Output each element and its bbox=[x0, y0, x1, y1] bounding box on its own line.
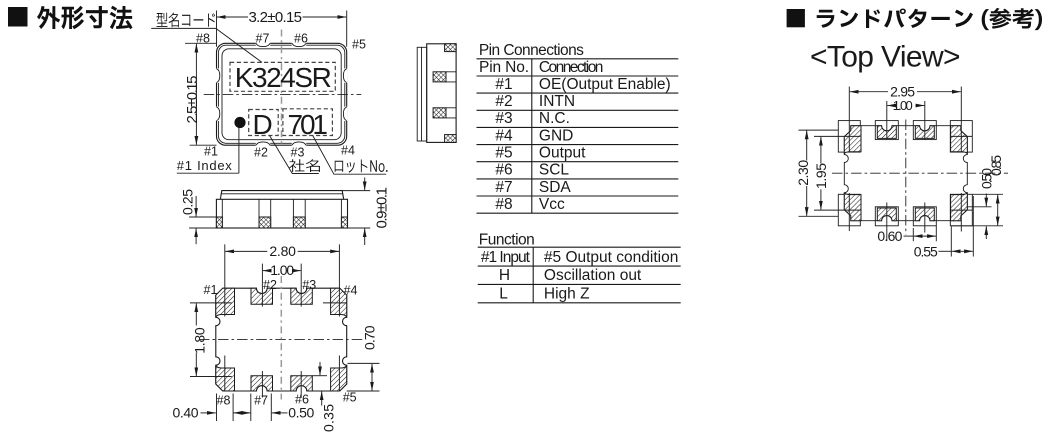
svg-text:0.40: 0.40 bbox=[173, 404, 199, 420]
svg-text:Pin Connections: Pin Connections bbox=[479, 42, 584, 59]
svg-text:#1: #1 bbox=[495, 76, 512, 93]
svg-text:#3: #3 bbox=[302, 278, 316, 292]
svg-text:#2: #2 bbox=[495, 93, 512, 110]
svg-text:#4: #4 bbox=[341, 144, 355, 158]
svg-text:#8: #8 bbox=[217, 394, 231, 408]
svg-text:#5: #5 bbox=[352, 38, 366, 52]
svg-text:D: D bbox=[253, 109, 273, 140]
svg-text:0.35: 0.35 bbox=[320, 404, 336, 432]
svg-text:#8: #8 bbox=[196, 32, 210, 46]
svg-text:Oscillation out: Oscillation out bbox=[544, 267, 642, 284]
svg-text:2.30: 2.30 bbox=[795, 160, 811, 186]
svg-text:#7: #7 bbox=[495, 179, 512, 196]
svg-text:#5: #5 bbox=[343, 391, 357, 405]
svg-text:#1: #1 bbox=[204, 145, 218, 159]
svg-text:#8: #8 bbox=[495, 196, 512, 213]
svg-text:#7: #7 bbox=[256, 32, 270, 46]
svg-text:<Top View>: <Top View> bbox=[810, 41, 961, 74]
svg-text:#2: #2 bbox=[254, 145, 268, 159]
svg-text:K324SR: K324SR bbox=[235, 62, 332, 93]
svg-text:#4: #4 bbox=[495, 127, 513, 144]
svg-text:#7: #7 bbox=[254, 394, 268, 408]
svg-text:SDA: SDA bbox=[539, 179, 572, 196]
svg-text:0.55: 0.55 bbox=[914, 243, 938, 259]
svg-text:0.70: 0.70 bbox=[361, 325, 377, 350]
svg-text:SCL: SCL bbox=[539, 162, 570, 179]
svg-text:Output: Output bbox=[539, 145, 586, 162]
svg-text:3.2±0.15: 3.2±0.15 bbox=[249, 9, 303, 26]
svg-text:1.00: 1.00 bbox=[270, 262, 294, 278]
svg-text:OE(Output Enable): OE(Output Enable) bbox=[539, 76, 671, 93]
svg-text:1.80: 1.80 bbox=[192, 327, 208, 354]
svg-text:N.C.: N.C. bbox=[539, 110, 570, 127]
svg-text:#3: #3 bbox=[291, 145, 305, 159]
svg-text:2.80: 2.80 bbox=[269, 243, 296, 259]
svg-text:#4: #4 bbox=[344, 284, 358, 298]
svg-text:Pin No.: Pin No. bbox=[479, 59, 529, 76]
svg-text:H: H bbox=[499, 267, 510, 284]
svg-text:Connection: Connection bbox=[539, 59, 604, 76]
svg-text:0.85: 0.85 bbox=[988, 155, 1004, 176]
svg-text:2.5±0.15: 2.5±0.15 bbox=[184, 76, 201, 124]
svg-text:High Z: High Z bbox=[544, 286, 590, 303]
svg-text:Function: Function bbox=[479, 232, 535, 249]
svg-text:#1 Index: #1 Index bbox=[177, 158, 233, 173]
svg-text:0.60: 0.60 bbox=[877, 228, 902, 244]
svg-text:L: L bbox=[499, 286, 508, 303]
svg-text:#6: #6 bbox=[495, 162, 512, 179]
svg-text:#6: #6 bbox=[295, 393, 309, 407]
svg-text:#3: #3 bbox=[495, 110, 512, 127]
svg-text:1.95: 1.95 bbox=[813, 163, 829, 189]
svg-text:#5: #5 bbox=[495, 145, 512, 162]
svg-text:1.00: 1.00 bbox=[893, 98, 913, 113]
svg-text:0.25: 0.25 bbox=[180, 189, 196, 215]
svg-text:Vcc: Vcc bbox=[539, 196, 565, 213]
svg-text:0.9±0.1: 0.9±0.1 bbox=[374, 187, 391, 229]
svg-text:0.50: 0.50 bbox=[288, 404, 314, 420]
svg-text:#6: #6 bbox=[294, 32, 308, 46]
svg-text:701: 701 bbox=[288, 109, 329, 140]
svg-text:#1: #1 bbox=[204, 283, 218, 297]
svg-text:#2: #2 bbox=[263, 278, 277, 292]
svg-text:INTN: INTN bbox=[539, 93, 575, 110]
svg-text:GND: GND bbox=[539, 127, 573, 144]
svg-text:#5 Output condition: #5 Output condition bbox=[544, 249, 678, 266]
svg-text:#1 Input: #1 Input bbox=[481, 249, 531, 266]
